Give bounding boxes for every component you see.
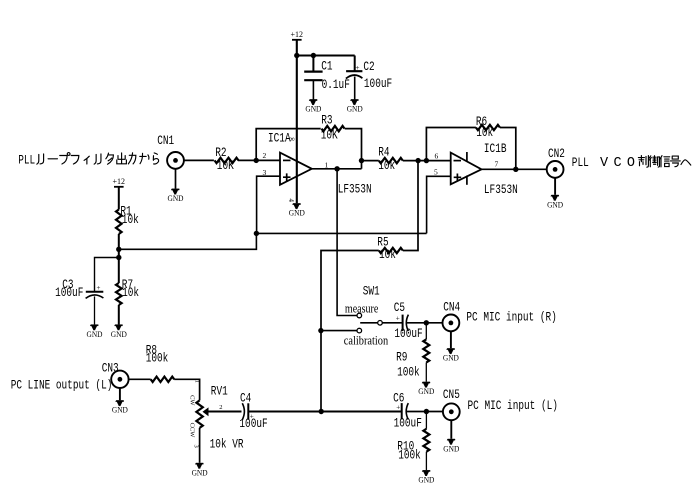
node R6 tap junction: [424, 158, 429, 163]
svg-text:5: 5: [434, 168, 438, 177]
ground (C3): [87, 325, 103, 339]
svg-text:GND: GND: [111, 330, 127, 339]
wire R7 to GND: [118, 305, 120, 325]
label CCW: [188, 423, 195, 439]
svg-text:C6: C6: [393, 391, 404, 406]
svg-text:RV1: RV1: [211, 384, 228, 399]
svg-text:+: +: [396, 315, 400, 323]
svg-text:GND: GND: [168, 194, 184, 203]
label PLL loop filter output (Japanese): [18, 153, 158, 168]
resistor R9: [396, 339, 429, 379]
pin 3 label (RV1): [192, 445, 199, 448]
capacitor C1: [304, 56, 350, 100]
wire pin3 net to divider: [118, 233, 256, 249]
svg-text:10k: 10k: [379, 247, 396, 262]
switch contact measure: [357, 313, 362, 318]
svg-text:GND: GND: [547, 200, 563, 209]
wire CN5 to GND: [450, 420, 452, 439]
power +12 (R1): [113, 176, 126, 187]
svg-text:LF353N: LF353N: [484, 182, 518, 197]
svg-text:10K: 10K: [321, 128, 338, 143]
resistor R7: [116, 277, 139, 305]
capacitor C2: [346, 56, 392, 100]
node divider junction: [116, 247, 121, 252]
svg-text:100k: 100k: [398, 448, 421, 463]
svg-text:+12: +12: [291, 29, 304, 39]
pin 1 label: [325, 161, 329, 170]
svg-text:C1: C1: [321, 59, 332, 74]
op-amp IC1B: [451, 141, 507, 185]
svg-text:IC1A: IC1A: [268, 131, 291, 146]
svg-text:CN4: CN4: [443, 300, 460, 315]
svg-text:C4: C4: [240, 391, 251, 406]
connector CN2: [547, 146, 565, 178]
svg-text:CCW: CCW: [188, 423, 195, 439]
wire CN2 to GND: [554, 178, 556, 195]
svg-text:1: 1: [194, 380, 201, 383]
wire +12 rail down through IC1A to GND: [296, 40, 298, 203]
label CW: [188, 395, 195, 406]
capacitor C4: [239, 391, 321, 431]
wire R9 to GND: [425, 363, 427, 382]
svg-text:PC MIC input (L): PC MIC input (L): [468, 398, 558, 413]
svg-text:VCO: VCO: [600, 156, 635, 171]
wire CN3 to GND: [119, 388, 121, 400]
node R9 junction: [424, 320, 429, 325]
capacitor C6: [393, 391, 443, 431]
op-amp IC1A: [268, 131, 312, 185]
resistor R3: [321, 112, 345, 142]
svg-text:10k: 10k: [122, 212, 139, 227]
ground (CN1): [168, 189, 184, 203]
wire IC1A output: [312, 168, 362, 170]
power +12 (top): [291, 29, 304, 40]
resistor R6: [476, 114, 500, 140]
svg-text:10k: 10k: [378, 158, 395, 173]
connector CN4: [443, 300, 461, 332]
svg-text:IC1B: IC1B: [484, 141, 507, 156]
wire +12 to R1: [118, 187, 120, 210]
svg-text:100uF: 100uF: [364, 76, 392, 91]
svg-text:GND: GND: [347, 105, 363, 114]
switch common contact: [378, 321, 383, 326]
svg-text:100k: 100k: [146, 350, 169, 365]
ground (R10): [418, 470, 434, 484]
svg-text:GND: GND: [443, 354, 459, 363]
label PC MIC input (L): [468, 398, 558, 413]
svg-text:10k VR: 10k VR: [210, 437, 244, 452]
wire CN1 to R2: [184, 159, 214, 161]
svg-text:0.1uF: 0.1uF: [322, 77, 350, 92]
pin 4 label: [287, 199, 295, 203]
wire R8 to RV1: [174, 379, 199, 400]
svg-text:CN2: CN2: [548, 146, 565, 161]
wire RV1 to GND: [199, 428, 201, 463]
wire R1 to R7: [118, 234, 120, 283]
node IC1A output junction: [334, 166, 339, 171]
wire R2 to IC1A pin2: [238, 159, 280, 161]
wire C4 node to C6: [321, 411, 402, 413]
switch lever: [360, 322, 377, 324]
svg-text:100uF: 100uF: [394, 326, 422, 341]
pin 2 label: [263, 151, 267, 160]
svg-text:R3: R3: [321, 112, 332, 127]
wire measure branch: [337, 169, 357, 316]
ground (C1): [305, 99, 321, 113]
svg-text:10K: 10K: [217, 158, 234, 173]
svg-text:100uF: 100uF: [394, 415, 422, 430]
svg-text:LF353N: LF353N: [338, 182, 372, 197]
ground (RV1): [192, 463, 208, 477]
svg-text:100k: 100k: [397, 365, 420, 380]
ground (C2): [347, 99, 363, 113]
ground (IC1A pin4): [289, 203, 305, 217]
svg-text:6: 6: [435, 152, 439, 161]
svg-text:GND: GND: [418, 387, 434, 396]
svg-text:4: 4: [287, 199, 295, 203]
wire feedback R3 loop: [256, 129, 361, 169]
svg-text:CN1: CN1: [157, 133, 174, 148]
svg-text:2: 2: [263, 151, 267, 160]
svg-text:7: 7: [495, 160, 499, 169]
svg-text:+: +: [97, 284, 101, 292]
svg-text:CN5: CN5: [443, 387, 460, 402]
svg-text:100uF: 100uF: [55, 285, 83, 300]
svg-text:∞: ∞: [289, 134, 295, 143]
pin 5 label: [434, 168, 438, 177]
node junction at +12/IC1A: [294, 53, 299, 58]
resistor R4: [378, 144, 403, 173]
svg-text:R9: R9: [396, 350, 407, 365]
connector CN5: [443, 387, 460, 420]
ground (CN4): [443, 348, 459, 362]
svg-text:10k: 10k: [476, 125, 493, 140]
wire +12 rail to C1 C2: [297, 54, 355, 56]
ground (R9): [418, 382, 434, 396]
pin 6 label: [435, 152, 439, 161]
label LF353N (IC1B): [484, 182, 518, 197]
node R5 tap junction: [415, 158, 420, 163]
capacitor C5: [394, 300, 443, 341]
svg-text:calibration: calibration: [344, 333, 389, 347]
node calibration junction: [318, 328, 323, 333]
pin 7 label: [495, 160, 499, 169]
capacitor C3: [55, 277, 103, 324]
node C4 net junction: [319, 409, 324, 414]
resistor R5: [377, 235, 403, 263]
label PC MIC input (R): [466, 309, 556, 324]
wire wiper to C4: [208, 411, 242, 413]
svg-text:+: +: [355, 63, 359, 72]
svg-text:2: 2: [219, 404, 222, 411]
wire SW1 to C5: [382, 322, 402, 324]
wire R10 to GND: [425, 452, 427, 470]
svg-text:CN3: CN3: [102, 361, 119, 376]
label calibration: [344, 333, 389, 347]
connector CN3: [102, 361, 129, 388]
ground (CN5): [443, 439, 459, 453]
wire C6 node to R10: [425, 412, 427, 429]
wire CN3 to R8: [129, 378, 151, 380]
label PC LINE output (L): [11, 378, 113, 393]
svg-text:CW: CW: [188, 395, 195, 406]
svg-text:PLL: PLL: [572, 155, 589, 170]
svg-text:C2: C2: [363, 59, 374, 74]
svg-text:PC MIC input (R): PC MIC input (R): [466, 309, 556, 324]
pin 2 label (RV1): [219, 404, 222, 411]
svg-text:10k: 10k: [122, 285, 139, 300]
svg-text:PC LINE output (L): PC LINE output (L): [11, 378, 113, 393]
resistor R10: [397, 429, 429, 463]
node C3 junction: [116, 255, 121, 260]
svg-text:GND: GND: [418, 476, 434, 485]
ground (CN2): [547, 195, 563, 209]
resistor R1: [116, 203, 139, 234]
resistor R2: [215, 145, 239, 173]
wire IC1A pin3 net: [256, 176, 450, 233]
wire R4 net: [362, 160, 451, 162]
node IC1B output junction: [513, 167, 518, 172]
svg-text:GND: GND: [192, 468, 208, 477]
wire feedback R6 loop: [426, 128, 515, 170]
label measure: [345, 301, 379, 315]
wire C3 branch: [95, 258, 119, 292]
resistor R8: [146, 342, 175, 382]
svg-text:PLL: PLL: [18, 153, 35, 168]
label 10k VR: [210, 437, 244, 452]
switch SW1: [363, 284, 380, 299]
svg-text:3: 3: [192, 445, 199, 448]
svg-text:+12: +12: [113, 176, 126, 186]
pin 1 label (RV1): [194, 380, 201, 383]
wire calibration branch: [321, 330, 357, 332]
svg-text:GND: GND: [112, 406, 128, 415]
svg-text:measure: measure: [345, 301, 379, 315]
wire CN1 to GND: [175, 169, 177, 189]
ground (CN3): [112, 400, 128, 414]
node R4 left junction: [359, 158, 364, 163]
svg-text:C5: C5: [394, 300, 405, 315]
wire IC1B output to CN2: [482, 168, 547, 170]
svg-text:SW1: SW1: [363, 284, 380, 299]
node pin2 junction: [254, 158, 259, 163]
label LF353N (IC1A): [338, 182, 372, 197]
svg-text:GND: GND: [87, 330, 103, 339]
svg-text:GND: GND: [443, 444, 459, 453]
RV1 wiper arrow: [203, 408, 208, 416]
wire R5 net: [321, 161, 418, 412]
ground (R7): [111, 325, 127, 339]
switch contact calibration: [357, 328, 362, 333]
wire CN4 to GND: [450, 331, 452, 348]
node junction at C1: [311, 53, 316, 58]
pin 3 label: [263, 168, 267, 177]
wire C5 node to R9: [425, 323, 427, 340]
node pin3 net junction: [254, 231, 259, 236]
svg-text:GND: GND: [305, 105, 321, 114]
connector CN1: [157, 133, 184, 169]
node R10 junction: [424, 409, 429, 414]
label PLL VCO control signal (Japanese): [572, 155, 691, 171]
svg-text:GND: GND: [289, 209, 305, 218]
potentiometer RV1: [196, 384, 227, 428]
svg-text:100uF: 100uF: [239, 416, 267, 431]
